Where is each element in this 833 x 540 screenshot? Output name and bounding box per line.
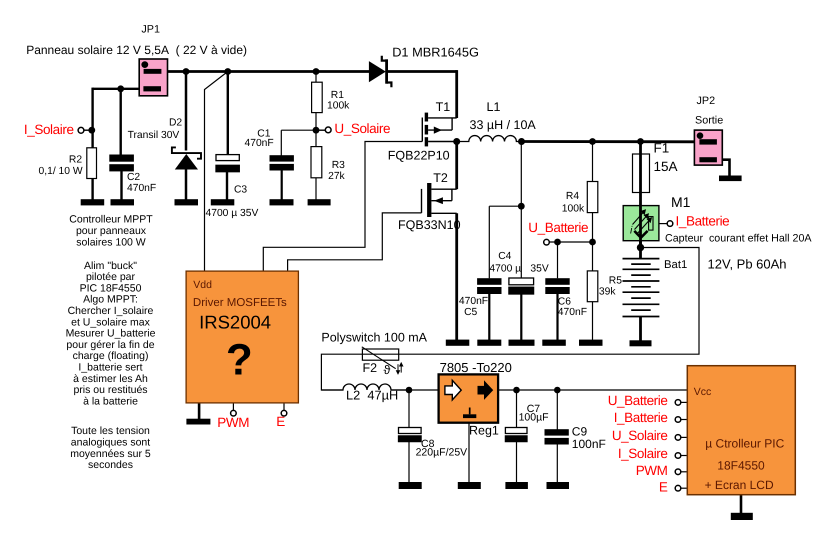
svg-text:Mesurer U_batterie: Mesurer U_batterie — [66, 328, 156, 340]
svg-text:Capteur courant effet Hall 20: Capteur courant effet Hall 20A — [665, 233, 812, 245]
svg-text:35V: 35V — [530, 263, 548, 274]
svg-text:PWM: PWM — [636, 463, 668, 478]
svg-text:18F4550: 18F4550 — [717, 459, 765, 473]
svg-text:R4: R4 — [566, 191, 579, 202]
svg-text:IRS2004: IRS2004 — [199, 311, 271, 332]
svg-text:Alim "buck": Alim "buck" — [84, 260, 137, 272]
svg-text:E: E — [659, 479, 668, 494]
svg-text:FQB22P10: FQB22P10 — [388, 148, 450, 162]
svg-text:470nF: 470nF — [127, 183, 156, 194]
svg-text:Reg1: Reg1 — [469, 424, 499, 438]
svg-text:I_batterie sert: I_batterie sert — [78, 362, 142, 374]
svg-text:470nF: 470nF — [245, 138, 274, 149]
svg-text:secondes: secondes — [88, 459, 133, 471]
svg-text:ϑ: ϑ — [384, 363, 391, 377]
svg-text:pour panneaux: pour panneaux — [76, 225, 147, 237]
svg-text:C4: C4 — [498, 251, 511, 262]
svg-text:à la batterie: à la batterie — [83, 395, 138, 407]
svg-text:I_Batterie: I_Batterie — [614, 410, 668, 425]
svg-text:JP2: JP2 — [697, 95, 716, 107]
svg-text:Algo MPPT:: Algo MPPT: — [83, 294, 138, 306]
svg-text:0,1/ 10 W: 0,1/ 10 W — [39, 166, 83, 177]
svg-text:T1: T1 — [436, 100, 451, 114]
svg-text:FQB33N10: FQB33N10 — [398, 218, 461, 232]
svg-text:Chercher I_solaire: Chercher I_solaire — [68, 305, 154, 317]
svg-text:4700 µ: 4700 µ — [489, 263, 521, 274]
svg-text:solaires 100 W: solaires 100 W — [76, 236, 146, 248]
svg-text:à estimer les Ah: à estimer les Ah — [73, 373, 148, 385]
svg-text:JP1: JP1 — [141, 24, 160, 36]
svg-text:Transil 30V: Transil 30V — [128, 130, 180, 141]
svg-text:33 µH / 10A: 33 µH / 10A — [470, 118, 537, 132]
svg-text:Bat1: Bat1 — [664, 259, 687, 271]
svg-text:L1: L1 — [487, 100, 501, 114]
svg-text:R5: R5 — [609, 276, 622, 287]
svg-text:pris ou restitués: pris ou restitués — [73, 384, 147, 396]
svg-text:220µF/25V: 220µF/25V — [416, 447, 468, 459]
svg-text:C3: C3 — [234, 185, 247, 196]
svg-text:7805 -To220: 7805 -To220 — [440, 360, 512, 375]
svg-text:U_Batterie: U_Batterie — [608, 393, 668, 408]
svg-text:27k: 27k — [328, 171, 345, 182]
svg-text:analogiques sont: analogiques sont — [71, 437, 150, 449]
svg-text:Vcc: Vcc — [694, 386, 712, 398]
svg-text:Vdd: Vdd — [193, 279, 212, 291]
svg-text:I_Solaire: I_Solaire — [24, 122, 74, 137]
svg-text:R1: R1 — [331, 90, 344, 101]
svg-text:C5: C5 — [464, 307, 477, 318]
svg-text:100nF: 100nF — [572, 437, 606, 451]
svg-text:U_Batterie: U_Batterie — [528, 220, 588, 235]
svg-text:D2: D2 — [169, 118, 182, 129]
svg-text:470nF: 470nF — [459, 296, 488, 307]
svg-text:U_Solaire: U_Solaire — [612, 428, 668, 443]
svg-text:39k: 39k — [599, 287, 616, 298]
svg-text:charge (floating): charge (floating) — [73, 350, 149, 362]
svg-text:4700 µ 35V: 4700 µ 35V — [206, 208, 259, 219]
svg-text:L2 47µH: L2 47µH — [346, 388, 398, 403]
svg-text:Controlleur MPPT: Controlleur MPPT — [69, 213, 153, 225]
svg-text:T2: T2 — [433, 171, 448, 185]
svg-text:12V, Pb 60Ah: 12V, Pb 60Ah — [708, 256, 787, 271]
svg-text:+ Ecran LCD: + Ecran LCD — [705, 478, 774, 492]
svg-text:U_Solaire: U_Solaire — [334, 121, 390, 136]
svg-text:E: E — [276, 414, 285, 429]
svg-text:100k: 100k — [562, 203, 585, 214]
svg-text:C6: C6 — [558, 297, 571, 308]
svg-text:µ Ctrolleur PIC: µ Ctrolleur PIC — [705, 436, 784, 450]
svg-text:100k: 100k — [327, 101, 350, 112]
svg-text:Driver MOSFEETs: Driver MOSFEETs — [193, 297, 287, 309]
svg-text:Toute les tension: Toute les tension — [71, 425, 150, 437]
svg-text:?: ? — [226, 336, 253, 385]
svg-text:F2: F2 — [363, 361, 378, 375]
svg-text:100µF: 100µF — [519, 412, 549, 424]
svg-text:et U_solaire max: et U_solaire max — [71, 316, 151, 328]
svg-text:F1: F1 — [654, 140, 670, 155]
svg-text:Polyswitch 100 mA: Polyswitch 100 mA — [321, 331, 427, 345]
svg-text:moyennées sur 5: moyennées sur 5 — [70, 448, 151, 460]
svg-text:C2: C2 — [127, 172, 140, 183]
svg-text:D1 MBR1645G: D1 MBR1645G — [392, 45, 479, 60]
svg-text:Sortie: Sortie — [695, 115, 723, 127]
svg-text:I_Batterie: I_Batterie — [676, 214, 730, 229]
svg-text:PIC 18F4550: PIC 18F4550 — [80, 282, 142, 294]
svg-text:470nF: 470nF — [558, 307, 587, 318]
svg-text:R2: R2 — [69, 155, 82, 166]
svg-text:Panneau solaire 12 V 5,5A ( 2: Panneau solaire 12 V 5,5A ( 22 V à vide) — [26, 43, 247, 57]
svg-text:R3: R3 — [332, 160, 345, 171]
svg-text:15A: 15A — [654, 159, 678, 174]
svg-text:I_Solaire: I_Solaire — [618, 446, 668, 461]
svg-text:pilotée par: pilotée par — [86, 271, 136, 283]
svg-text:M1: M1 — [671, 194, 691, 210]
svg-text:PWM: PWM — [217, 415, 249, 430]
svg-text:pour gérer la fin de: pour gérer la fin de — [66, 339, 154, 351]
